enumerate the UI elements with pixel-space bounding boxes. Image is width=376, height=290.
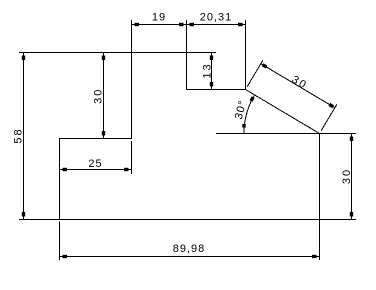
svg-text:30°: 30° [233, 99, 250, 121]
svg-text:25: 25 [88, 158, 102, 170]
svg-text:19: 19 [152, 12, 166, 24]
svg-text:20,31: 20,31 [200, 12, 233, 24]
svg-text:30: 30 [341, 168, 353, 184]
svg-text:30: 30 [93, 88, 105, 104]
svg-text:13: 13 [202, 62, 214, 78]
svg-text:89,98: 89,98 [173, 243, 206, 255]
svg-text:30: 30 [289, 74, 309, 93]
svg-text:58: 58 [13, 127, 25, 143]
